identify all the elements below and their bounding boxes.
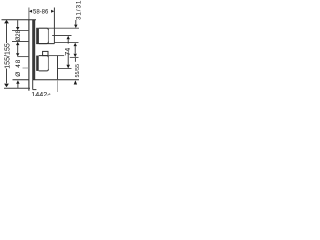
node lower box top bump	[43, 51, 48, 55]
background	[0, 0, 96, 96]
wire: L5 lower reference line	[58, 68, 72, 70]
svg-text:31/31: 31/31	[75, 0, 82, 20]
wire: L3b jogged extension	[54, 41, 78, 43]
svg-text:155/155: 155/155	[5, 43, 12, 69]
svg-text:74: 74	[63, 48, 72, 56]
svg-text:1442: 1442	[31, 90, 47, 96]
wire: L3a upper box bottom	[36, 43, 54, 45]
wire: V3 lower wall extension line	[57, 56, 59, 80]
wire: V1 wall extension line	[53, 8, 55, 44]
bottom-right small mark	[46, 93, 50, 96]
svg-text:55/55: 55/55	[75, 64, 81, 78]
wire: L1 upper box top extension	[36, 27, 79, 29]
wire: escutcheon front face vertical line	[28, 8, 30, 20]
wire: L7 lower-left reference line	[4, 87, 30, 89]
dimension 55/55 right bottom	[74, 58, 76, 62]
wire: L4b jogged extension	[70, 56, 79, 58]
dimension 155/155 left	[4, 20, 9, 24]
node valve body upper box	[36, 28, 39, 43]
wire: L4a lower box top extension	[49, 55, 65, 57]
dimension 58-86 top	[29, 10, 32, 13]
dimension small right (between L3b and L4b)	[74, 43, 77, 46]
wire: bottom stub line	[33, 89, 37, 91]
node plate slab (escutcheon cross-section filled band)	[32, 20, 35, 80]
node valve body lower box	[36, 56, 39, 71]
svg-text:Ø: Ø	[15, 72, 22, 77]
dimension Ø28 upper-left extension lines	[12, 30, 29, 32]
wire: L2 pipe line	[52, 35, 71, 37]
wire: plate top cap line	[2, 19, 37, 21]
wire: L6 bottom plate line	[13, 79, 29, 81]
wire: lower knob extension line	[17, 56, 29, 58]
svg-text:48: 48	[15, 59, 22, 68]
wire: V4 plate band bottom extension	[32, 80, 34, 90]
dimension 74 middle right	[67, 36, 70, 40]
svg-text:58-86: 58-86	[33, 10, 49, 16]
svg-text:Ø28: Ø28	[16, 29, 22, 41]
dimension Ø28 upper-left	[17, 20, 19, 27]
